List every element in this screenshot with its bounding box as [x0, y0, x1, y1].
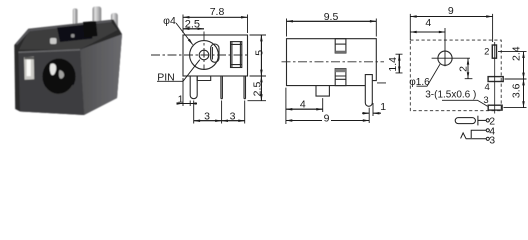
footprint: right dim line 2.4/3.6: [523, 52, 525, 108]
photo: white slot top shadow: [24, 57, 34, 59]
svg-text:1: 1: [178, 94, 184, 106]
svg-text:3: 3: [483, 95, 488, 106]
svg-text:5: 5: [253, 50, 265, 56]
front view: barrel outer circle: [190, 41, 219, 70]
front view: right dims extensions: [248, 35, 267, 101]
side view: dim 1 extensions: [369, 103, 373, 123]
footprint: dim 2 (hole to slot4): [465, 58, 473, 78]
side view: dim 9 line: [286, 120, 369, 122]
photo: hole glint 2: [59, 70, 64, 79]
svg-text:2.5: 2.5: [185, 19, 200, 31]
side view: right pin: [365, 75, 372, 107]
side view: text 9 white backing: [322, 113, 331, 123]
photo: top face back edge strip: [16, 20, 113, 45]
photo: connector body pin C: [111, 13, 118, 40]
svg-text:2.4: 2.4: [511, 46, 523, 61]
footprint: right dim ticks: [498, 52, 527, 108]
side view: horizontal centerline: [282, 61, 385, 63]
photo: white slot bright bar: [27, 60, 31, 77]
front view: dim 1 line: [177, 103, 198, 105]
schematic: pin4 terminal: [486, 129, 489, 132]
svg-text:φ4: φ4: [163, 15, 176, 27]
front view: right dim line 5 / 2.5: [260, 35, 262, 101]
photo: top slot dark recess: [57, 24, 93, 42]
front view: dim 1 extension: [183, 78, 190, 106]
schematic: barrel stadium: [455, 118, 475, 124]
svg-text:1: 1: [380, 101, 386, 113]
front view: vertical centerline: [203, 32, 205, 71]
front view: dim 7.8 extension lines: [183, 15, 248, 34]
front view: D-slot chord line: [211, 47, 213, 60]
footprint: slot 2 pad: [492, 45, 496, 58]
side view: dim 4 extensions: [286, 88, 323, 124]
photo: front face: [19, 50, 85, 116]
photo: front top ridge highlight: [19, 50, 81, 53]
schematic: pin2 line: [478, 119, 486, 121]
side view: dim 9.5 extensions: [287, 19, 377, 37]
side view: lower contact gray band: [335, 69, 346, 73]
svg-text:2: 2: [458, 66, 470, 72]
front view: dim 7.8 line: [183, 16, 248, 18]
side view: dim 1.4 ticks: [377, 54, 403, 83]
side view: dim 9.5 line: [287, 20, 377, 22]
side view: bottom post: [316, 86, 329, 97]
footprint: dim 9 extensions: [410, 14, 492, 42]
svg-text:2.5: 2.5: [252, 82, 264, 97]
svg-text:3: 3: [230, 111, 236, 123]
photo: connector body pin A: [73, 9, 78, 34]
side view: dim 4 line: [286, 108, 323, 110]
svg-text:3: 3: [204, 111, 210, 123]
footprint: dashed outline: [410, 40, 501, 111]
front view: dim 2.5 line: [183, 28, 204, 30]
footprint: slot 4 pad: [488, 77, 503, 82]
svg-text:1.4: 1.4: [387, 57, 399, 72]
svg-text:4: 4: [300, 98, 306, 110]
front view: fat round pin: [190, 76, 197, 99]
photo: right side face: [80, 34, 122, 115]
footprint: hole circle: [438, 51, 452, 65]
side view: body outline with stepped bottom-right: [287, 39, 377, 86]
front view: body outline: [183, 35, 248, 76]
schematic: pin3 terminal: [486, 137, 489, 140]
front view: switch box outer: [231, 42, 242, 68]
schematic: pin3 line with spring: [461, 133, 487, 139]
front view: PIN leader: [157, 60, 200, 82]
photo: connector body pin B: [93, 7, 102, 34]
svg-text:3: 3: [489, 134, 495, 146]
schematic: center pin bar: [477, 116, 479, 126]
side view: top contact dark band: [335, 51, 346, 53]
front view: D-slot window: [211, 44, 219, 62]
photo: barrel hole rim light: [45, 85, 73, 94]
photo: barrel hole: [42, 59, 75, 95]
side view: top contact rect: [335, 39, 346, 53]
svg-text:9: 9: [448, 5, 454, 17]
front view: dim 3+3 line: [194, 120, 245, 122]
front view: center fat pin stub: [197, 76, 211, 81]
svg-text:9.5: 9.5: [324, 11, 339, 23]
svg-text:φ1.6: φ1.6: [409, 77, 430, 88]
photo: top center-pin glint: [50, 38, 57, 44]
front view: dim 3+3 extensions: [194, 101, 245, 124]
front view: thin pin 1: [221, 76, 223, 99]
front view: barrel inner circle: [199, 50, 209, 60]
front view: horizontal centerline: [151, 54, 248, 56]
svg-text:2: 2: [484, 47, 489, 58]
photo: white slot opening: [24, 57, 34, 80]
photo: body silhouette base: [14, 20, 122, 116]
front view: thin pin 2: [244, 76, 246, 99]
footprint: slot2 connecting line: [494, 42, 496, 114]
photo: connector body pin A highlight: [74, 9, 76, 32]
footprint: dim 9 line: [410, 16, 492, 18]
side view: dim 1.4 line: [398, 54, 400, 73]
front view: phi4 leader: [176, 23, 193, 45]
photo: hole glint 1: [50, 64, 57, 76]
schematic: pin4 line: [471, 130, 486, 138]
schematic: pin2 terminal: [486, 119, 489, 122]
footprint: phi1.6 leader: [417, 64, 441, 86]
front view: center pin cross: [202, 53, 207, 58]
footprint: slot leader: [442, 100, 488, 106]
svg-text:3-(1.5x0.6 ): 3-(1.5x0.6 ): [425, 89, 476, 100]
side view: dim 1 line: [362, 112, 381, 114]
svg-text:9: 9: [324, 113, 330, 125]
photo: top face mid tone: [19, 21, 118, 50]
side view: top contact mid line: [335, 43, 346, 45]
side view: lower contact lines: [335, 76, 346, 79]
photo: top glint small dot: [71, 34, 75, 38]
footprint: dim 4 line: [410, 31, 445, 33]
svg-text:PIN: PIN: [157, 72, 175, 84]
svg-text:7.8: 7.8: [210, 6, 225, 18]
side view: lower contact rect: [335, 69, 346, 86]
photo: pin B base block: [83, 21, 98, 38]
footprint: hole crosshair: [432, 28, 470, 66]
footprint: slot 3 pad: [488, 105, 502, 110]
front view: switch box inner lines: [231, 42, 242, 68]
svg-text:3.6: 3.6: [511, 83, 523, 98]
svg-text:4: 4: [485, 82, 490, 93]
svg-text:4: 4: [425, 17, 431, 29]
